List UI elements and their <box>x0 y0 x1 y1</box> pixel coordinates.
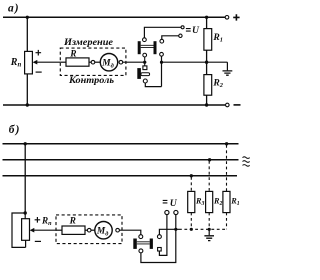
wire phase bus 3 <box>3 175 238 177</box>
chopper contact right bar (fig b) <box>150 239 153 249</box>
resistor R (fig b) <box>62 226 85 234</box>
AC mark (three tildes) <box>243 157 250 166</box>
contact bridge lines <box>141 45 154 47</box>
wire shorting loop around Rp <box>12 213 26 247</box>
dashed drop R3 to rail <box>190 213 192 230</box>
minus sign at wiper <box>36 71 42 73</box>
lower contact bar <box>137 68 141 79</box>
wire Rp top stub <box>24 213 26 219</box>
contact terminal c1b <box>139 235 143 239</box>
chopper top contact left bar <box>138 41 141 54</box>
wire R to terminal (fig b) <box>85 229 87 231</box>
resistor R1 (fig a) <box>204 29 212 51</box>
wire into box to R (fig b) <box>56 229 62 231</box>
dashed drop bus2 to R2 <box>208 161 210 191</box>
lower contact terminal circle c7 <box>143 79 147 83</box>
resistor R2 (fig b) <box>206 191 213 212</box>
junction bottom bus / Rp riser <box>26 103 29 106</box>
contact terminal c4 <box>160 52 164 56</box>
junction rail / ground drop <box>208 228 211 231</box>
wire c1 to U terminal <box>144 27 181 38</box>
minus sign bottom right <box>234 104 241 106</box>
terminal circle U1 <box>181 26 184 29</box>
wire motor terminal to chopper <box>123 61 147 63</box>
wire R to terminal <box>89 61 91 63</box>
svg-text:U: U <box>170 198 178 209</box>
svg-text:б): б) <box>9 124 21 136</box>
square terminal of lower contact <box>143 66 147 70</box>
svg-text:а): а) <box>8 2 20 14</box>
wire stub junction to square terminal <box>144 62 146 66</box>
motor Md (fig a) <box>100 54 117 71</box>
wire motor to chopper (fig b) <box>119 230 140 234</box>
contact bridge lines (fig b) <box>137 242 150 244</box>
terminal + of top bus <box>225 15 229 19</box>
wiper arrowhead <box>33 60 38 65</box>
wire R1 top stub <box>206 17 208 28</box>
terminal circle U2 <box>179 34 182 37</box>
svg-text:U: U <box>192 25 200 36</box>
dashed box Izmerenie/Kontrol <box>60 48 126 75</box>
plus sign top right <box>233 14 239 20</box>
dashed box (fig b) <box>56 215 122 244</box>
svg-text:R: R <box>69 49 76 59</box>
svg-text:Контроль: Контроль <box>68 75 115 86</box>
junction bus2 / R2 dashed drop <box>208 158 211 161</box>
dashed drop bus1 to R1 <box>226 145 228 191</box>
wire phase bus 1 <box>3 143 239 145</box>
wire rail to ground (fig b) <box>208 229 210 235</box>
wire terminal to motor (fig b) <box>91 229 95 231</box>
wire c3b up to rail <box>159 229 179 234</box>
ground (fig a) <box>223 71 233 75</box>
wiper wire of Rp (fig b) <box>34 229 56 231</box>
wire Rp riser lower <box>26 74 28 105</box>
resistor R (fig a) <box>66 58 89 66</box>
contact terminal c2b <box>139 249 143 253</box>
junction right wire / R1 R2 <box>205 61 208 64</box>
contact terminal c1 <box>143 38 147 42</box>
terminal circle right of motor (fig b) <box>116 228 120 232</box>
svg-text:R: R <box>69 217 76 227</box>
wire terminal to motor <box>95 61 101 63</box>
resistor R1 (fig b) <box>223 191 230 212</box>
contact terminal c2 <box>143 53 147 57</box>
wire L to lower contact circle <box>145 83 161 87</box>
dashed drop R1 to rail <box>226 213 228 230</box>
motor Md (fig b) <box>95 222 112 239</box>
junction riser / Rp shorting loop <box>24 211 27 214</box>
wiper wire of Rp <box>37 61 61 63</box>
wire to ground (fig a) <box>226 62 228 70</box>
wire R2 top stub <box>206 62 208 74</box>
resistor R3 <box>188 191 195 212</box>
junction top bus / R1 <box>205 16 208 19</box>
ground (fig b) <box>204 236 214 241</box>
terminal circle right of motor <box>119 60 123 64</box>
terminal circle after R <box>91 60 95 64</box>
junction U right riser / dashed rail <box>174 228 177 231</box>
terminal circle U right (fig b) <box>174 210 178 214</box>
wire c2b down to bottom run <box>141 215 176 263</box>
junction rail / R3 drop <box>190 228 193 231</box>
potentiometer Rp body <box>25 51 33 74</box>
lower contact arm <box>141 73 150 76</box>
wire R1 bottom stub <box>206 50 208 62</box>
junction bus1 / R1 dashed drop <box>225 142 228 145</box>
resistor R2 (fig a) <box>204 75 212 96</box>
label = U (fig b) <box>163 200 168 203</box>
wire bottom bus <box>3 104 225 106</box>
label = U (fig a) <box>186 29 191 32</box>
wire top bus <box>3 16 225 18</box>
wiper arrowhead (fig b) <box>30 228 35 233</box>
minus sign at wiper (fig b) <box>35 240 41 242</box>
wire stub up to contact circle c2 <box>144 57 146 62</box>
square terminal of contact (fig b) <box>158 248 162 252</box>
terminal circle U left (fig b) <box>165 210 169 214</box>
plus sign at wiper (fig b) <box>35 217 41 223</box>
contact terminal c3b <box>157 235 161 239</box>
terminal circle after R (fig b) <box>87 228 91 232</box>
wire Rp riser (fig b) <box>24 144 26 213</box>
wire Rp bottom stub <box>25 240 27 247</box>
contact terminal c3 <box>160 39 164 43</box>
dashed drop R2 to rail <box>208 213 210 230</box>
junction bus1 / Rp riser <box>24 142 27 145</box>
junction c4 wire / main wire <box>160 61 163 64</box>
wire square to U left riser <box>159 215 167 256</box>
wire c3 to U terminal 2 <box>162 36 179 40</box>
junction bus3 / R3 dashed drop <box>190 174 193 177</box>
chopper contact left bar (fig b) <box>133 239 137 249</box>
potentiometer Rp (fig b) <box>22 219 30 241</box>
dashed rail to resistors <box>179 228 227 230</box>
junction bottom bus / R2 <box>205 103 208 106</box>
wire c4 down through main wire to lower L <box>161 56 163 86</box>
wire phase bus 2 <box>3 159 239 161</box>
wire R2 bottom stub <box>206 95 208 105</box>
dashed drop bus3 to R3 <box>190 177 192 191</box>
wire into box to resistor R <box>60 61 66 63</box>
svg-text:Измерение: Измерение <box>63 37 114 48</box>
junction top bus / Rp riser <box>26 16 29 19</box>
main wire right segment <box>162 61 228 63</box>
terminal - of bottom bus <box>226 103 230 107</box>
wire Rp riser upper <box>26 17 28 51</box>
chopper top contact right bar <box>154 41 157 54</box>
junction main wire / contact stub <box>143 61 146 64</box>
plus sign at wiper <box>36 50 42 56</box>
